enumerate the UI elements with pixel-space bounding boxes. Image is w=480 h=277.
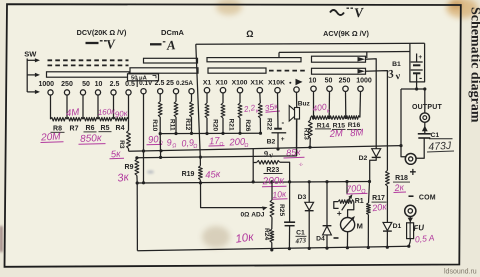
value 2M (R15) [328,128,343,140]
wire D3 column top [308,182,310,203]
svg-text:R14: R14 [317,122,330,129]
svg-text:+: + [337,208,342,218]
DC current symbol [150,37,176,53]
DCmA contact circles [141,89,194,94]
wire D4 to bottom rail [326,235,328,248]
svg-text:R13: R13 [302,128,309,140]
resistor R4 [114,117,129,121]
svg-text:R24: R24 [263,228,270,240]
chain junction dots [312,116,348,119]
svg-text:R6: R6 [86,125,95,132]
label R19 [182,171,195,178]
resistor R23 [257,161,280,165]
value 20M (R8) [40,131,64,143]
stain left edge dark strip [0,226,3,252]
wire meter to bottom rail [346,232,348,248]
resistor R16 [346,116,360,120]
svg-text:10: 10 [95,81,103,88]
wire R9 bottom to left rail [136,176,138,184]
value 90 ohm (R10) [147,134,164,147]
rail shunt bottoms M1 [160,132,260,134]
svg-text:10: 10 [309,78,317,85]
wire TW2 elbow to ohm bar [278,52,280,57]
battery B2 [272,129,287,149]
rail L main lower [137,182,369,184]
svg-text:X100: X100 [232,80,248,87]
label R14 [315,122,331,129]
svg-text:R22: R22 [266,118,273,130]
resistor R19 [199,166,203,180]
svg-text:10к: 10к [272,189,287,200]
wire R23 right column to cap [280,162,290,222]
wire ACV deck1 to D2 column [365,59,376,149]
value 17 ohm (R20) [209,136,225,148]
resistor R17 [367,203,371,215]
diode D1 [383,222,392,231]
wire X10 contact drop [222,93,224,103]
svg-text:R19: R19 [182,171,195,178]
value 10k (R24) [235,231,255,245]
wire output jack to C1 [422,122,428,134]
label R26 [244,119,251,131]
diode D3 [305,202,314,210]
svg-text:2М: 2М [328,128,343,140]
svg-text:R4: R4 [116,125,125,132]
svg-text:B1: B1 [392,61,401,68]
svg-text:0Ω ADJ: 0Ω ADJ [241,211,265,218]
resistor R21 [221,103,225,118]
resistor R8 [51,117,68,121]
wire R3 to mid rail [128,149,130,152]
Ohm range labels [203,80,285,87]
wire fuse to bottom rail [409,241,411,246]
svg-text:R25: R25 [278,204,285,216]
wire X10K to B2 [277,93,280,129]
wire DCV contact drop x=113.5 [113,95,115,119]
svg-text:OUTPUT: OUTPUT [412,104,443,111]
AC voltage symbol [330,5,365,21]
label R25 [278,204,285,216]
svg-text:25: 25 [166,80,174,87]
SW arrow 2 [27,73,40,77]
label B1 [392,61,401,68]
svg-text:90к: 90к [114,109,129,120]
svg-text:FU: FU [413,223,425,233]
svg-text:D1: D1 [393,223,402,230]
diode D4 [323,226,332,235]
wire R4 to R3 [128,119,130,130]
rail M3b lower [137,120,297,158]
label COM [409,194,436,201]
wire buzzer to lower rail [296,119,298,156]
value 473 (C1 bottom) [294,236,307,245]
resistor R9 [135,159,139,176]
wire C1b to bottom rail [288,226,290,249]
value 2.2k (R26) [242,103,260,115]
label SW [24,49,37,58]
wire R24 to bottom rail [271,242,273,250]
DCmA range labels [139,80,193,87]
wire DCV contact drop x=83 [82,95,84,119]
value 200 ohm (R21) [228,136,249,149]
B1 enclosure wires [410,43,425,82]
svg-text:R1: R1 [355,198,364,205]
jack plus [405,154,416,165]
junction dots rail L [136,180,372,185]
wire DCV contact drop x=98 [97,95,99,119]
svg-text:0.5: 0.5 [125,81,135,88]
resistor R25 potentiometer [270,200,274,217]
svg-text:D2: D2 [359,155,368,162]
label row separator [136,79,138,88]
svg-text:R3: R3 [118,140,125,149]
value 400k (R14) [312,101,332,114]
svg-text:X1K: X1K [250,80,263,87]
stain bottom-left-center [202,226,230,248]
wire R9 top [136,158,138,159]
wire ohm bus TW2 [279,51,410,54]
watermark ldsound.ru [444,269,477,276]
value 20k (R17) [371,201,388,213]
wire V1 mA bus drop [196,44,201,157]
svg-text:2к: 2к [393,182,405,193]
svg-text:Ω: Ω [246,29,253,39]
wire R12 to rail [191,117,193,134]
value 9 ohm (R11) [166,137,177,149]
svg-text:1000: 1000 [39,81,55,88]
junction M3b [135,156,202,160]
label R3 [118,140,125,149]
label B2 [267,138,276,145]
squiggle mark [298,162,304,168]
label R8 [51,126,65,133]
value 5k (R3) [110,148,125,160]
svg-text:45к: 45к [205,169,221,181]
title Schematic diagram (right margin) [468,7,480,123]
svg-text:250: 250 [61,81,73,88]
DCV track dashed line lower [48,64,129,66]
wire 0.25A contact drop [191,94,193,102]
resistor R24 [270,229,274,242]
ACV range labels [309,78,372,85]
meter minus mark [334,237,339,239]
wire ACV 10 contact drop [313,92,315,118]
value 850k (R6) [79,133,106,145]
label R4 [116,125,125,132]
label R16 [347,122,361,130]
svg-text:X10: X10 [215,80,227,87]
wire R19 leads [199,157,201,183]
value 3V (B1) [386,68,402,82]
Ohm lower slider bar [208,68,266,73]
svg-text:0.1V: 0.1V [139,80,153,87]
label R17 [372,195,387,202]
DCmA lower slider bar [130,68,198,73]
resistor R12 [190,102,194,118]
wire R22 to rail [259,118,261,133]
label DCmA [161,28,185,37]
buzzer Buz [289,106,299,121]
wire ACV deck2 to R18 column [365,71,387,171]
value 2k (R18) [393,182,406,193]
label D4 [316,236,325,243]
svg-text:R23: R23 [266,167,279,174]
svg-text:Ω: Ω [244,143,249,149]
svg-text:0,5 A: 0,5 A [414,232,435,244]
junction dots bottom rail [270,245,410,252]
svg-text:2.5: 2.5 [155,80,165,87]
svg-text:X1: X1 [203,80,212,87]
wire R13 top [309,118,311,120]
value 90k (R4) [114,109,129,120]
value 0.9 ohm (R12) [181,137,198,150]
svg-text:+: + [418,54,422,61]
potentiometer R1 [334,193,354,210]
DCV track dashed line upper [48,59,129,61]
label C1 bottom [296,230,307,237]
wire buz contact to buzzer [296,92,298,107]
wire ACV 250 contact drop [345,92,347,118]
resistor R6 [83,117,98,121]
wire COM to fuse [408,217,413,242]
buzzer position mark [289,79,302,85]
ACV lower slider bar [312,68,366,74]
svg-text:R11: R11 [168,119,175,131]
capacitor C1 bottom [284,222,295,226]
resistor R26 [238,103,242,118]
wire DCV contact drop x=50.5 [50,95,52,119]
svg-text:COM: COM [419,194,436,201]
DCV slider bar [47,72,130,77]
rail MID 9V [129,146,401,152]
resistor R3 [127,131,131,149]
label ACV(9K ohm/V) [323,29,369,38]
wire R20 to rail [206,118,208,134]
wire D3 to bottom rail [308,211,310,249]
svg-text:D3: D3 [298,194,307,201]
wire 0.1V contact drop [143,94,145,183]
svg-text:M: M [357,222,363,231]
SW arrow 3 [27,90,40,94]
svg-text:DCV(20K Ω /V): DCV(20K Ω /V) [77,28,127,37]
wire R25 to R24 [271,217,273,229]
wire R18 to D1 [386,186,388,222]
50uA box [128,74,159,82]
label R20 [212,119,219,131]
label R11 [168,119,175,131]
wire X1K contact drop [259,93,262,103]
label Ohm section [246,29,253,39]
plus sign [409,167,416,179]
wire ACV 1000 contact drop [359,92,362,118]
svg-text:ldsound.ru: ldsound.ru [444,269,477,276]
label OUTPUT [412,104,443,111]
wire mA bus TW1 [196,42,425,45]
wire DCV contact drop x=128.5 [128,95,130,119]
value 45k (R19) [205,169,221,181]
jack COM [405,205,416,216]
svg-text:1000: 1000 [356,78,372,85]
resistor R11 [174,102,178,118]
B2 polarity marks [281,118,285,143]
meter M [341,215,357,232]
svg-text:Buz: Buz [298,101,311,108]
buzzer contact circle [294,87,299,92]
label R21 [228,119,235,131]
svg-text:+: + [281,136,285,143]
svg-text:2.5: 2.5 [110,81,120,88]
value 3k (R9) [117,171,131,185]
wire ACV deck1 riser to TW2 [366,52,368,58]
battery B1 [411,54,423,90]
label Buz [298,101,311,108]
wire X100 contact drop [239,93,241,103]
junction dots M1 left [159,132,194,135]
svg-text:R20: R20 [212,119,219,131]
resistor R22 [258,103,262,118]
resistor R14 [311,116,330,120]
label R23 [264,167,283,174]
ACV contact circles [311,86,363,91]
svg-text:DCmA: DCmA [161,28,185,37]
svg-text:R10: R10 [151,119,158,131]
svg-text:250: 250 [339,78,351,85]
SW wiper stem [26,59,28,93]
svg-text:-: - [419,73,422,83]
wire meter column top [346,182,348,194]
svg-text:200к: 200к [262,176,286,188]
label R24 [263,228,270,240]
label DCV(20K ohm/V) [77,28,127,37]
DC voltage symbol [86,36,117,52]
wire output riser [424,89,426,113]
svg-text:700: 700 [346,183,362,195]
wire left branch to plus jack [401,89,405,157]
wire R9 column to bottom rail [136,183,138,251]
svg-text:R5: R5 [101,125,110,132]
wire R13 to mid rail [309,138,311,147]
svg-text:R9: R9 [125,164,134,171]
Ohm upper slider bar [207,58,301,62]
wire R21 to rail [222,118,224,133]
wire C1 to plus jack [416,138,424,158]
label R9 [125,164,134,171]
label 0-ohm ADJ [241,211,265,218]
svg-text:ACV(9K Ω /V): ACV(9K Ω /V) [323,29,369,38]
svg-text:·ɩ·: ·ɩ· [298,162,304,168]
svg-text:R7: R7 [70,125,79,132]
label R18 [393,175,410,182]
junction dots M1 right [205,132,262,136]
value 473J (C1) [427,140,454,154]
meter plus mark [337,208,342,218]
DCmA upper slider bar [144,58,198,63]
resistor R13 [308,120,312,138]
wire 25mA contact drop [175,94,177,102]
fuse FU [407,223,414,239]
wire R23 left column [253,149,257,182]
Ohm lower track dashes [269,70,307,72]
resistor R7 [67,117,83,121]
svg-text:473: 473 [294,236,307,245]
label R12 [184,118,191,130]
diode D2 [372,149,381,158]
label D2 [359,155,368,162]
svg-text:Ω: Ω [172,143,177,149]
value 160k (R5) [97,107,116,117]
wire rail L to R17 [369,182,370,204]
svg-text:Ω: Ω [193,144,198,150]
wire R10 to rail [159,117,161,134]
wire D4 column top [326,182,328,226]
svg-text:-: - [281,118,284,127]
ACV upper slider bar [312,56,366,62]
DCV range labels [39,81,135,88]
resistor R18 [386,171,390,187]
svg-text:B2: B2 [267,138,276,145]
Ohm contact circles [204,88,280,93]
wire 2.5mA contact drop [159,94,161,102]
B1 polarity marks [418,54,422,83]
label R22 [266,118,273,130]
svg-text:R18: R18 [395,175,408,182]
wire R17 to bottom rail [367,215,369,248]
svg-text:R21: R21 [228,119,235,131]
junction B1 bottom [415,87,426,90]
label R10 [151,119,158,131]
svg-text:+: + [409,167,416,179]
svg-text:850к: 850к [80,133,103,145]
svg-text:C1: C1 [430,132,439,139]
svg-text:SW: SW [24,49,37,58]
capacitor C1 [418,134,431,138]
stain small blue-gray [147,170,154,173]
value 0.5A (FU) [414,232,435,244]
SW arrow 1 [27,58,40,62]
resistor R20 [205,103,209,118]
label R1 [355,198,364,205]
label D3 [298,194,307,201]
wire D2 to rail L [370,157,377,181]
svg-text:Ω: Ω [219,142,224,148]
value 4M (R7) [66,107,80,119]
value 9V (B2) [263,148,274,160]
svg-text:0.25A: 0.25A [176,80,193,87]
jack OUTPUT [420,113,429,122]
wire R10 rail to lower rail drop [159,134,162,159]
svg-text:A: A [165,37,176,53]
wire R1 to meter [348,202,354,218]
svg-text:D4: D4 [316,236,325,243]
wire zero-adj wiper [201,183,269,211]
svg-text:X10K: X10K [268,80,285,87]
junction dots MID [142,144,403,153]
wire B1 bottom rail [401,88,425,90]
label R7 [70,125,79,132]
wire ACV 50 contact drop [328,92,330,118]
svg-text:8М: 8М [350,127,364,139]
stain top-center [216,0,242,15]
svg-text:R26: R26 [244,119,251,131]
label C1 [429,132,453,139]
label FU [413,223,425,233]
label R6 [84,125,97,132]
label M [357,222,363,231]
svg-text:4M: 4M [66,107,80,119]
svg-text:50: 50 [325,78,333,85]
wire R11 to rail [175,117,177,134]
value 700 ohm (R1) [346,183,368,196]
